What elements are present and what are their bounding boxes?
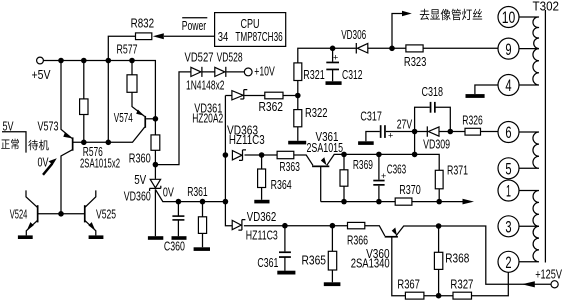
resistor R832 [131, 16, 155, 40]
svg-text:5V: 5V [3, 118, 14, 133]
pin 9 [498, 38, 519, 59]
svg-text:2SA1340: 2SA1340 [351, 256, 390, 271]
junction R368 top [436, 223, 442, 229]
winding 6-5 [519, 132, 539, 168]
arrow +125V [522, 281, 535, 287]
junction C363 top [376, 152, 382, 158]
junction R364 [259, 152, 265, 158]
svg-text:5: 5 [505, 160, 511, 179]
junction C360 [176, 199, 182, 205]
wire V361 collector [320, 167, 322, 202]
resistor R370 [395, 182, 421, 205]
svg-text:27V: 27V [397, 116, 413, 131]
pin 5 [498, 158, 519, 179]
svg-text:V524: V524 [10, 206, 28, 221]
svg-text:HZ11C3: HZ11C3 [229, 132, 265, 147]
resistor R327 [450, 276, 473, 299]
junction C363 bottom [376, 199, 382, 205]
transformer core [544, 10, 546, 263]
capacitor C318 [415, 84, 451, 132]
svg-text:1: 1 [506, 182, 511, 201]
svg-text:0V: 0V [163, 184, 174, 199]
diode VD362 [232, 209, 278, 243]
transistor V524 [10, 190, 39, 235]
diode VD363 [227, 122, 265, 160]
resistor R371 [435, 162, 468, 201]
junction base-x108 [106, 140, 112, 146]
ground R364 [254, 200, 269, 204]
svg-text:V574: V574 [114, 110, 133, 125]
wire V360 collector [392, 237, 406, 296]
svg-text:+: + [381, 171, 386, 181]
pin 6 [498, 122, 519, 143]
svg-text:6: 6 [505, 123, 511, 142]
wire VD363 row [245, 155, 313, 165]
capacitor C317 [360, 109, 414, 142]
svg-text:R326: R326 [462, 113, 483, 128]
svg-text:VD527: VD527 [185, 50, 214, 65]
junction R321 R322 R362 [295, 93, 301, 99]
svg-text:R368: R368 [445, 251, 469, 266]
zener VD360 [124, 172, 174, 204]
transistor V525 [84, 190, 116, 235]
wire VD362 row [244, 226, 385, 236]
svg-text:R365: R365 [302, 253, 327, 268]
svg-text:+5V: +5V [32, 67, 51, 82]
wire filament arrow [392, 8, 483, 49]
svg-text:R323: R323 [404, 54, 427, 69]
svg-text:V525: V525 [96, 206, 116, 221]
resistor R363 [277, 151, 300, 174]
wire 27V down [414, 132, 416, 155]
ground pin4 [466, 85, 499, 98]
junction rail-V573 [58, 58, 64, 64]
ground C312 [326, 81, 342, 85]
diode VD528 [215, 50, 243, 77]
ground R322 [288, 141, 306, 145]
svg-text:VD528: VD528 [217, 50, 243, 65]
svg-text:正常: 正常 [1, 138, 20, 151]
junction R365 [330, 223, 336, 229]
wire VD361 row [225, 95, 297, 97]
svg-text:R371: R371 [447, 162, 468, 177]
transistor V360 [351, 228, 398, 271]
svg-text:1N4148x2: 1N4148x2 [186, 77, 225, 92]
resistor R364 [258, 155, 292, 200]
pin 2 [498, 251, 519, 272]
resistor R362 [259, 92, 284, 114]
pin 1 [498, 180, 519, 201]
wire base row V524 V525 [38, 213, 84, 215]
node 27V [397, 116, 418, 134]
junction V574 base rail [153, 116, 159, 122]
winding 1-3 [519, 191, 539, 227]
svg-text:0V: 0V [38, 154, 49, 169]
junction V524 V525 bases [58, 211, 64, 217]
junction R369 top [341, 152, 347, 158]
svg-text:TMP87CH36: TMP87CH36 [235, 29, 282, 44]
resistor R368 [434, 226, 469, 296]
node +10V terminal [244, 63, 275, 78]
pin 3 [498, 216, 519, 237]
wire x225 vertical [225, 96, 232, 226]
wire VD360 to ground [154, 189, 156, 236]
ground V524 [18, 235, 33, 239]
wire V360 emitter +125V [396, 226, 551, 284]
capacitor C361 [257, 226, 291, 271]
svg-text:R322: R322 [305, 105, 328, 120]
svg-text:R361: R361 [187, 184, 208, 199]
junction rail-R576 [81, 58, 87, 64]
resistor R366 [347, 222, 368, 247]
pin 10 [498, 7, 519, 28]
svg-text:R577: R577 [117, 41, 138, 56]
arrow into R832 [153, 33, 164, 39]
diode VD309 [415, 126, 451, 151]
wire +5V rail [43, 61, 155, 135]
svg-text:C360: C360 [164, 238, 185, 253]
junction filament tap [389, 46, 395, 52]
junction rail-R577 [129, 58, 135, 64]
resistor R576 [80, 61, 120, 171]
svg-text:9: 9 [505, 40, 511, 59]
diode VD306 [341, 27, 368, 54]
svg-text:C318: C318 [422, 84, 444, 99]
resistor R369 [340, 154, 373, 201]
pin 4 [498, 75, 519, 96]
transistor V361 [307, 129, 344, 167]
svg-text:R362: R362 [259, 99, 284, 114]
wire B bottom row [321, 201, 463, 203]
svg-text:+: + [333, 52, 338, 62]
transistor V573 collector wire [61, 150, 72, 214]
svg-text:C361: C361 [257, 255, 278, 270]
capacitor C312 [326, 48, 362, 82]
resistor R361 [187, 184, 208, 248]
svg-text:+125V: +125V [535, 267, 562, 282]
ground V525 [89, 235, 104, 239]
junction C312 [330, 46, 336, 52]
op-amp U1 CPU TMP87CH36 box [215, 13, 286, 47]
svg-text:3: 3 [505, 218, 511, 237]
capacitor C360 [164, 202, 185, 254]
svg-text:34: 34 [218, 29, 229, 44]
svg-text:C363: C363 [387, 162, 407, 177]
wire V574 base [146, 118, 155, 120]
resistor R367 [397, 276, 424, 299]
svg-text:R369: R369 [353, 157, 373, 172]
label 0V annotation left [38, 154, 57, 174]
label 5V normal/standby [1, 118, 49, 152]
svg-text:VD360: VD360 [124, 189, 151, 204]
junction x225-VD363 [223, 152, 229, 158]
svg-text:HZ11C3: HZ11C3 [246, 227, 278, 242]
arrow wire B output [463, 199, 475, 205]
junction C361 [282, 223, 288, 229]
resistor R365 [302, 226, 337, 283]
resistor R323 [404, 45, 427, 69]
svg-text:VD306: VD306 [341, 27, 366, 42]
svg-text:R321: R321 [303, 67, 325, 82]
resistor R577 [117, 41, 145, 116]
junction R369 bottom [341, 199, 347, 205]
ground R365 [324, 282, 341, 286]
wire x108 down [107, 61, 109, 143]
svg-text:10: 10 [502, 8, 516, 27]
diode VD361 [192, 90, 247, 126]
node +125V terminal [535, 267, 562, 288]
svg-text:5V: 5V [134, 172, 146, 187]
transistor V573 [38, 118, 74, 150]
ground C360 [172, 236, 187, 240]
resistor R360 [129, 135, 160, 179]
wire R832 link [108, 36, 214, 60]
ground R361 [194, 247, 210, 251]
wire V573 base row [74, 127, 145, 142]
svg-text:2SA1015: 2SA1015 [307, 140, 344, 155]
diode VD527 [185, 50, 214, 77]
svg-text:+: + [388, 131, 393, 141]
wire bottom row [424, 272, 508, 295]
svg-text:R832: R832 [131, 16, 155, 31]
junction R368 bottom [436, 293, 442, 299]
capacitor C363 [373, 154, 406, 201]
wire V573 emitter [61, 61, 72, 139]
junction R361 [200, 199, 206, 205]
svg-text:VD309: VD309 [423, 137, 450, 152]
junction base-R576 [81, 140, 87, 146]
wire A VD360 to R361 row [155, 189, 225, 201]
svg-text:HZ20A2: HZ20A2 [192, 111, 223, 126]
junction R371 bottom [436, 199, 442, 205]
junction 27V-emitter [412, 152, 418, 158]
svg-text:R363: R363 [279, 159, 300, 174]
svg-text:+10V: +10V [254, 63, 275, 78]
svg-text:R327: R327 [450, 276, 473, 291]
winding 10-9 [519, 17, 539, 49]
svg-text:Power: Power [182, 18, 207, 33]
node +5V terminal [32, 57, 51, 82]
svg-text:2SA1015x2: 2SA1015x2 [80, 156, 120, 171]
svg-text:C317: C317 [360, 109, 382, 124]
svg-text:去显像管灯丝: 去显像管灯丝 [419, 8, 483, 22]
svg-text:R367: R367 [397, 276, 420, 291]
ground C317 [358, 141, 374, 145]
transistor V574 [114, 110, 146, 128]
junction R360-VD527line [153, 162, 159, 168]
resistor R322 [294, 105, 328, 141]
junction VD309-R326 [448, 129, 454, 135]
ground VD360 [148, 236, 163, 240]
winding 9-4 [519, 49, 539, 85]
svg-text:C312: C312 [342, 67, 363, 82]
resistor R326 [450, 113, 498, 136]
wire row2 top [298, 48, 498, 63]
svg-text:VD362: VD362 [247, 209, 276, 224]
junction rail-R832 [106, 58, 112, 64]
ground C361 [277, 271, 295, 275]
wire VD527 feed [155, 72, 244, 165]
svg-text:待机: 待机 [28, 138, 49, 152]
svg-text:R366: R366 [347, 233, 368, 248]
winding 3-2 [519, 226, 539, 261]
svg-text:R370: R370 [399, 182, 421, 197]
label Power with overline [182, 18, 208, 33]
svg-text:R364: R364 [271, 177, 292, 192]
svg-text:R360: R360 [129, 151, 151, 166]
svg-text:4: 4 [505, 76, 511, 95]
svg-text:2: 2 [505, 253, 511, 272]
svg-text:V573: V573 [38, 118, 59, 133]
wire V361 emitter row [327, 154, 439, 170]
resistor R321 [294, 63, 325, 110]
junction wireA-x225 [223, 199, 229, 205]
